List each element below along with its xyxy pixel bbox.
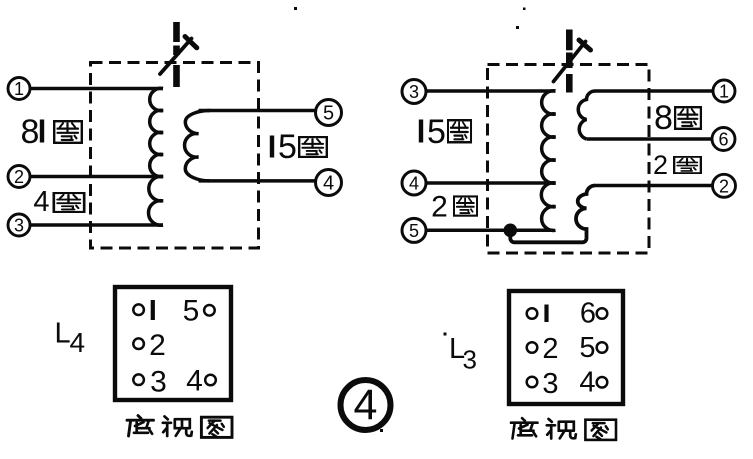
terminal circle 2 (L3) [713,174,736,197]
svg-text:L: L [55,318,71,350]
svg-text:2: 2 [719,176,729,196]
wire pin5 [199,109,317,113]
svg-text:5: 5 [409,221,419,241]
caption bottom-view (L3) [511,418,616,440]
L4 bottom view pin numbers [149,295,203,399]
reference designator L4 [55,318,86,359]
svg-text:3: 3 [14,216,24,236]
value label 15 turns (L4 secondary) [272,128,327,166]
wire pin6 (L3) [587,137,713,141]
svg-text:5: 5 [323,103,334,125]
wire pin4 tap (L3) [426,181,556,185]
svg-text:4: 4 [354,381,378,429]
terminal circle 5 (L3) [402,218,426,242]
wire pin4 [199,179,317,183]
wire pin2 (L3) [595,184,714,188]
wire pin1 to coil [31,87,164,91]
reference designator L3 [444,333,477,375]
wire pin1 (L3) [595,89,714,93]
L3 tuning arrow [554,40,591,82]
svg-text:6: 6 [718,130,728,150]
svg-text:2: 2 [542,333,558,365]
L4 adjustable core (dashed bar) [173,22,180,87]
terminal circle 6 (L3) [712,128,735,151]
svg-text:4: 4 [186,365,203,398]
L3 bottom view pin numbers [542,298,596,401]
wire pin3 to coil (L3) [426,89,556,93]
L4 bottom view box [115,287,231,400]
svg-text:3: 3 [409,82,419,102]
value label 8 turns (L3 secondary upper) [654,99,701,137]
value label 15 turns (L3 primary upper) [421,113,471,151]
inductor L4 secondary coil [185,111,210,181]
terminal circle 1 (L3) [713,80,735,102]
svg-text:1: 1 [14,79,24,99]
terminal circle 1 [8,78,30,100]
value label 4 turns (L4 primary lower) [33,186,84,218]
inductor L3 primary coil [541,91,555,231]
terminal circle 3 [8,214,30,236]
svg-text:4: 4 [323,173,334,195]
svg-text:3: 3 [542,368,558,400]
L4 shield dashed box [91,63,259,249]
caption bottom-view (L4) [127,416,232,438]
svg-text:8: 8 [21,113,40,151]
svg-text:4: 4 [409,174,419,194]
wire pin2 tap [31,175,164,179]
terminal circle 4 [316,170,342,196]
wire pin3 [31,223,164,227]
L3 adjustable core (dashed bar) [566,30,573,93]
wire pin5 (L3) [426,229,553,233]
svg-text:3: 3 [150,366,167,399]
svg-text:2: 2 [653,150,668,180]
svg-text:1: 1 [719,82,729,102]
svg-text:5: 5 [278,128,297,166]
svg-text:6: 6 [580,298,596,330]
svg-text:5: 5 [427,113,446,151]
L4 bottom view pin circles [133,304,216,385]
terminal circle 4 (L3) [402,171,426,195]
junction dot [504,224,518,238]
svg-text:2: 2 [149,329,166,362]
L3 shield dashed box [488,65,650,254]
speck [294,7,526,432]
figure number 4 [341,380,391,430]
svg-text:3: 3 [463,345,477,375]
value label 2 turns (L3 primary lower) [431,191,477,224]
svg-text:5: 5 [183,295,200,328]
svg-text:5: 5 [579,332,595,364]
terminal circle 5 [316,100,342,126]
L3 bottom view pin circles [527,308,608,387]
L3 bottom view box [509,291,623,404]
L4 tuning arrow [160,37,197,75]
terminal circle 3 (L3) [402,80,426,104]
terminal circle 2 [8,166,30,188]
inductor L3 secondary coil upper section [578,91,595,139]
svg-text:2: 2 [14,167,24,187]
value label 2 turns (L3 secondary lower) [653,150,701,180]
svg-text:8: 8 [654,99,673,137]
value label 81 turns (L4 primary upper) [21,113,82,151]
svg-text:4: 4 [579,367,595,399]
inductor L3 secondary coil lower section [510,186,595,243]
svg-text:4: 4 [33,186,49,218]
svg-text:4: 4 [70,327,86,358]
svg-text:2: 2 [431,191,448,224]
inductor L4 primary coil [148,88,163,225]
